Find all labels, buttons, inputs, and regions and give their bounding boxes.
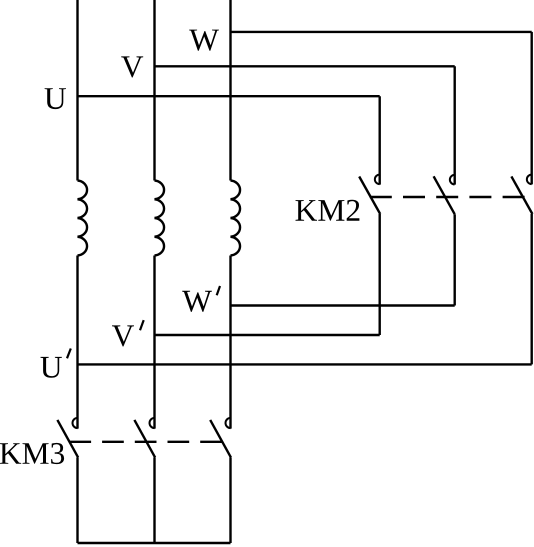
inductor winding W bbox=[231, 181, 241, 256]
wire V' horizontal bbox=[155, 334, 380, 336]
wire U' horizontal bbox=[78, 363, 532, 365]
wire W tap vertical down to KM2 bbox=[531, 32, 533, 185]
node label U' bbox=[41, 357, 62, 378]
wire V phase vertical bottom bbox=[153, 457, 155, 543]
blade KM3 pole 3 bbox=[210, 420, 231, 458]
contact circle KM3 pole 2 bbox=[150, 418, 155, 428]
inductor winding V bbox=[155, 181, 165, 256]
wire star-point bottom bus bbox=[78, 542, 231, 544]
wire V phase vertical top bbox=[153, 0, 155, 181]
wire V tap horizontal bbox=[155, 65, 455, 67]
contact circle KM2 pole 2 bbox=[450, 175, 455, 185]
wire U phase vertical middle bbox=[76, 256, 78, 429]
wire W tap horizontal bbox=[231, 31, 532, 33]
wire W phase vertical top bbox=[229, 0, 231, 181]
wire U tap horizontal bbox=[78, 95, 380, 97]
contact circle KM3 pole 1 bbox=[72, 418, 77, 428]
wire U phase vertical top bbox=[76, 0, 78, 181]
wire KM2 pole 3 down to U' bbox=[531, 214, 533, 364]
wire W' horizontal bbox=[231, 304, 455, 306]
wire W phase vertical middle bbox=[229, 256, 231, 429]
node label U bbox=[45, 88, 66, 109]
wire V phase vertical middle bbox=[153, 256, 155, 429]
contactor label KM3 bbox=[0, 443, 64, 464]
dashed linkage KM2 bbox=[370, 196, 525, 198]
blade KM2 pole 3 bbox=[511, 176, 532, 214]
wire KM2 pole 1 down to V' bbox=[379, 214, 381, 335]
node label V' bbox=[112, 325, 134, 346]
contact circle KM2 pole 1 bbox=[375, 175, 380, 185]
blade KM2 pole 1 bbox=[359, 177, 380, 215]
wire W phase vertical bottom bbox=[229, 457, 231, 543]
dashed linkage KM3 bbox=[69, 441, 222, 443]
blade KM3 pole 1 bbox=[57, 420, 78, 458]
node label W bbox=[189, 30, 219, 51]
contactor label KM2 bbox=[296, 200, 360, 221]
contact circle KM2 pole 3 bbox=[527, 175, 532, 185]
contact circle KM3 pole 3 bbox=[226, 418, 231, 428]
node label V bbox=[121, 56, 143, 77]
blade KM3 pole 2 bbox=[134, 420, 155, 458]
blade KM2 pole 2 bbox=[434, 176, 455, 214]
wire U tap vertical down to KM2 bbox=[379, 96, 381, 184]
node label W' bbox=[182, 291, 212, 312]
wire U phase vertical bottom bbox=[76, 457, 78, 543]
wire KM2 pole 2 down to W' bbox=[454, 214, 456, 305]
inductor winding U bbox=[78, 181, 88, 256]
wire V tap vertical down to KM2 bbox=[454, 66, 456, 184]
